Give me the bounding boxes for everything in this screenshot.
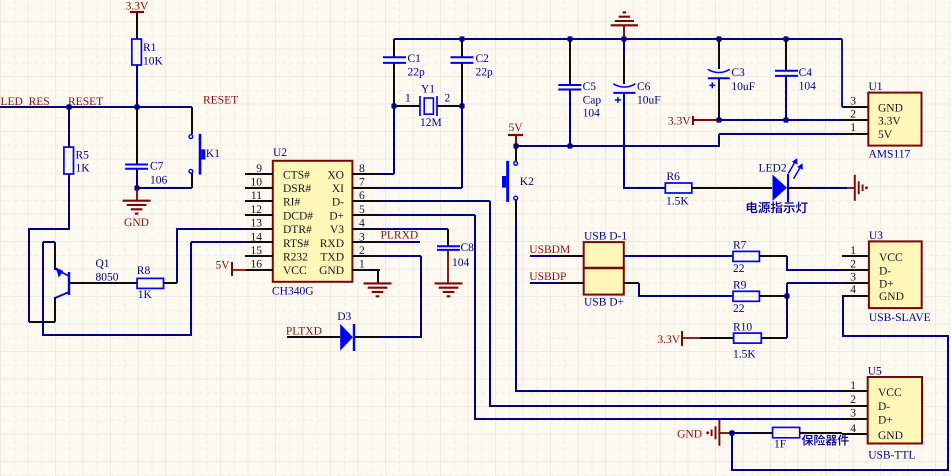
junction C2 top: [459, 36, 464, 41]
wire PLRXD stub: [380, 241, 420, 243]
wire K2 bottom to U5 pin1: [515, 200, 517, 220]
svg-text:C2: C2: [476, 53, 490, 65]
resistor R7: [733, 251, 759, 261]
wire top GND bus: [394, 38, 842, 40]
wire U1 pin1 5V rail: [719, 133, 842, 135]
junction R5 node: [66, 104, 71, 109]
wire U3 GND route: [732, 296, 948, 470]
wire C6 bottom to R6: [624, 93, 665, 188]
svg-text:106: 106: [150, 175, 168, 187]
capacitor C8: [437, 245, 460, 247]
svg-text:8: 8: [359, 163, 365, 175]
svg-text:3.3V: 3.3V: [126, 1, 149, 13]
svg-text:Y1: Y1: [421, 84, 435, 96]
wire K1 bottom row: [137, 187, 192, 189]
wire C3 bottom stem: [718, 78, 720, 120]
ground (below U2): [364, 282, 392, 284]
svg-text:10K: 10K: [143, 56, 164, 68]
svg-text:3.3V: 3.3V: [878, 116, 901, 128]
svg-text:5: 5: [359, 204, 365, 216]
wire RESET node to C7: [136, 107, 138, 164]
svg-text:D+: D+: [329, 210, 344, 222]
wire R7 to U3 pin2: [759, 255, 787, 257]
svg-text:TXD: TXD: [320, 252, 344, 264]
ground (below C8): [435, 282, 463, 284]
capacitor C5: [558, 84, 581, 86]
svg-text:3: 3: [359, 231, 365, 243]
svg-text:1: 1: [850, 122, 856, 134]
svg-text:22: 22: [733, 303, 745, 315]
svg-text:C7: C7: [150, 161, 164, 173]
junction C7/K1/GND: [134, 185, 139, 190]
wire C6 top stem: [623, 39, 625, 55]
svg-text:D3: D3: [337, 311, 351, 323]
junction 5V/K2: [513, 143, 518, 148]
ground (top, inverted): [623, 25, 625, 39]
wire D+ route (U2 pin5 to U5 pin3): [380, 214, 475, 216]
wire emitter vertical: [54, 297, 56, 322]
svg-text:C5: C5: [583, 81, 597, 93]
svg-text:C1: C1: [408, 53, 422, 65]
wire LED_RES row: [0, 106, 69, 108]
junction C3 top: [716, 36, 721, 41]
wire XI to crystal: [380, 187, 462, 189]
wire R8 to U2 pin13: [164, 282, 177, 284]
wire LED cathode to ground: [788, 187, 814, 189]
svg-text:CTS#: CTS#: [283, 169, 310, 181]
svg-text:12: 12: [251, 204, 263, 216]
wire TXD to D3: [380, 255, 421, 257]
fuse 1F: [773, 427, 800, 437]
wire C1 stems: [393, 39, 395, 57]
svg-text:USBDP: USBDP: [529, 271, 566, 283]
svg-text:22p: 22p: [408, 67, 426, 79]
resistor R1: [132, 39, 142, 65]
U1 pin stubs: [842, 106, 868, 108]
diode D3: [340, 324, 353, 351]
wire XO to crystal: [380, 173, 394, 175]
svg-text:1.5K: 1.5K: [733, 349, 756, 361]
svg-text:VCC: VCC: [879, 252, 903, 264]
svg-text:5V: 5V: [215, 259, 230, 271]
svg-text:PLTXD: PLTXD: [286, 326, 322, 338]
capacitor C3 (polarized): [708, 69, 730, 72]
wire collector vertical: [54, 242, 56, 270]
svg-text:D-: D-: [332, 197, 344, 209]
capacitor C4: [775, 70, 798, 72]
svg-text:D+: D+: [879, 279, 894, 291]
svg-text:V3: V3: [330, 224, 344, 236]
junction GND stem: [621, 36, 626, 41]
wire R10 to node: [761, 337, 787, 339]
wire C4 top stem: [785, 39, 787, 71]
wire collector to RTS loop: [43, 241, 55, 243]
wire USBDP: [530, 282, 557, 284]
svg-text:U5: U5: [868, 366, 882, 378]
resistor R6: [665, 183, 692, 193]
switch K2: [514, 162, 518, 166]
junction C5 top: [567, 36, 572, 41]
resistor R5: [64, 147, 74, 174]
U3 pin stubs: [842, 255, 869, 257]
wire K1 bottom: [191, 173, 193, 188]
svg-text:C6: C6: [637, 81, 651, 93]
junction C4 bottom: [783, 117, 788, 122]
ground port (fuse): [718, 420, 720, 446]
junction R1/C7 node: [134, 104, 139, 109]
LED LED2: [773, 175, 788, 201]
svg-text:VCC: VCC: [283, 265, 307, 277]
svg-text:104: 104: [452, 257, 470, 269]
svg-text:RXD: RXD: [320, 238, 344, 250]
svg-text:13: 13: [251, 218, 263, 230]
svg-text:2: 2: [850, 259, 856, 271]
svg-text:4: 4: [850, 284, 856, 296]
svg-text:R10: R10: [733, 322, 752, 334]
svg-text:D+: D+: [878, 414, 893, 426]
wire D+ to R9: [624, 282, 639, 284]
svg-text:CH340G: CH340G: [272, 286, 314, 298]
svg-text:3.3V: 3.3V: [668, 116, 691, 128]
wire C2 stems: [461, 39, 463, 57]
svg-text:R232: R232: [283, 252, 308, 264]
svg-text:GND: GND: [878, 430, 903, 442]
svg-text:7: 7: [359, 177, 365, 189]
capacitor C7: [125, 164, 148, 166]
svg-text:C4: C4: [799, 67, 813, 79]
svg-text:GND: GND: [124, 217, 149, 229]
svg-text:14: 14: [251, 231, 263, 243]
svg-text:D-: D-: [879, 266, 891, 278]
junction crystal left: [391, 103, 396, 108]
svg-text:RESET: RESET: [203, 95, 238, 107]
svg-text:1: 1: [850, 245, 856, 257]
svg-text:DCD#: DCD#: [283, 210, 313, 222]
svg-text:R1: R1: [143, 42, 157, 54]
wire C5 bottom stem: [569, 90, 571, 146]
svg-text:PLRXD: PLRXD: [381, 230, 419, 242]
wire R5 to emitter (left loop): [29, 174, 69, 322]
svg-text:3: 3: [850, 96, 856, 108]
svg-text:GND: GND: [878, 103, 903, 115]
svg-text:U1: U1: [869, 81, 883, 93]
svg-text:GND: GND: [879, 291, 904, 303]
wire R1 to RESET node: [136, 65, 138, 107]
svg-text:C3: C3: [731, 67, 745, 79]
resistor R8: [137, 278, 163, 288]
svg-text:4: 4: [850, 423, 856, 435]
svg-text:VCC: VCC: [878, 387, 902, 399]
junction crystal right: [459, 103, 464, 108]
junction fuse/GND: [729, 430, 734, 435]
transistor Q1: [68, 272, 70, 295]
junction R9/R10/D+: [784, 293, 789, 298]
svg-text:104: 104: [799, 81, 817, 93]
wire K2 top: [515, 146, 517, 162]
svg-text:5V: 5V: [878, 129, 893, 141]
U5 pin stubs: [842, 390, 868, 392]
IC U1 box: [868, 93, 921, 146]
svg-text:DSR#: DSR#: [283, 183, 311, 195]
svg-text:Cap: Cap: [583, 95, 602, 107]
svg-text:U3: U3: [869, 230, 883, 242]
svg-text:R6: R6: [667, 171, 681, 183]
svg-text:USBDM: USBDM: [529, 244, 570, 256]
svg-text:XO: XO: [327, 169, 344, 181]
wire 3.3V to U1 pin2: [693, 119, 719, 121]
svg-text:9: 9: [256, 163, 262, 175]
ground (signal, right of LED): [854, 175, 856, 201]
resistor R10: [734, 333, 762, 343]
label 电源指示灯: [747, 202, 808, 214]
svg-text:1K: 1K: [76, 163, 91, 175]
svg-text:3: 3: [850, 272, 856, 284]
svg-text:1: 1: [850, 380, 856, 392]
switch K1: [189, 135, 193, 139]
svg-text:XI: XI: [332, 183, 344, 195]
wire R5 top: [68, 107, 70, 147]
svg-text:K1: K1: [206, 148, 220, 160]
svg-text:K2: K2: [520, 176, 534, 188]
junction C3 bottom: [716, 117, 721, 122]
svg-text:USB D-1: USB D-1: [584, 231, 627, 243]
svg-text:1: 1: [405, 93, 411, 105]
capacitor C1: [383, 56, 406, 58]
wire V3 to C8: [380, 228, 448, 230]
wire GND junction to fuse: [732, 432, 752, 434]
svg-text:6: 6: [359, 190, 365, 202]
svg-text:R9: R9: [733, 280, 747, 292]
svg-text:USB-TTL: USB-TTL: [868, 450, 915, 462]
svg-text:10uF: 10uF: [731, 81, 755, 93]
svg-text:2: 2: [850, 394, 856, 406]
wire U2 pin1 to ground: [377, 270, 379, 283]
svg-text:1F: 1F: [774, 439, 786, 451]
svg-text:4: 4: [359, 218, 365, 230]
svg-text:11: 11: [251, 190, 262, 202]
wire R6 to LED: [692, 187, 772, 189]
svg-text:1K: 1K: [138, 289, 153, 301]
svg-text:RI#: RI#: [283, 197, 301, 209]
svg-text:D-: D-: [878, 401, 890, 413]
svg-text:USB-SLAVE: USB-SLAVE: [869, 312, 931, 324]
svg-text:Q1: Q1: [96, 258, 110, 270]
svg-text:2: 2: [359, 245, 365, 257]
svg-text:GND: GND: [319, 265, 344, 277]
svg-text:RTS#: RTS#: [283, 238, 309, 250]
svg-text:GND: GND: [677, 429, 702, 441]
svg-text:16: 16: [251, 259, 263, 271]
junction C4 top: [783, 36, 788, 41]
U2 left pin stubs: [245, 173, 273, 175]
wire Q1 base: [69, 282, 137, 284]
svg-text:22p: 22p: [476, 67, 494, 79]
svg-text:2: 2: [445, 93, 451, 105]
connector USB D-1 box: [584, 242, 624, 295]
wire R9 to node: [759, 295, 787, 297]
wire C7 to ground node: [136, 169, 138, 188]
svg-text:3: 3: [850, 407, 856, 419]
svg-text:USB D+: USB D+: [584, 297, 624, 309]
crystal Y1: [394, 105, 420, 107]
IC U5 box: [868, 377, 922, 444]
svg-text:8050: 8050: [96, 272, 119, 284]
svg-text:DTR#: DTR#: [283, 224, 312, 236]
wire 3.3V to R10: [682, 337, 700, 339]
svg-text:2: 2: [850, 109, 856, 121]
wire to K1 top: [191, 107, 193, 134]
label 保险器件: [802, 434, 849, 445]
wire node down to R10: [786, 296, 788, 338]
wire USBDM: [530, 255, 557, 257]
svg-text:R8: R8: [137, 265, 151, 277]
svg-text:22: 22: [733, 263, 745, 275]
junction C5 bottom: [567, 143, 572, 148]
ground GND (below C7): [136, 188, 138, 201]
resistor R9: [733, 291, 759, 301]
wire PLTXD: [287, 336, 340, 338]
svg-text:1: 1: [359, 259, 365, 271]
capacitor C6 (polarized): [613, 84, 635, 87]
svg-text:R7: R7: [733, 240, 747, 252]
wire C5 top stem: [569, 39, 571, 85]
IC U3 box: [869, 241, 922, 308]
svg-text:C8: C8: [461, 242, 475, 254]
svg-text:1.5K: 1.5K: [666, 196, 689, 208]
wire C4 bottom stem: [785, 76, 787, 120]
wire fuse to U5 pin4: [800, 432, 842, 434]
wire D- route (U2 pin6 to U5 pin2): [380, 200, 490, 202]
svg-text:LED2: LED2: [759, 163, 787, 175]
svg-text:5V: 5V: [508, 122, 523, 134]
svg-text:10uF: 10uF: [637, 95, 661, 107]
wire U2 pin14 RTS#: [191, 241, 245, 243]
capacitor C2: [451, 56, 474, 58]
svg-text:10: 10: [251, 177, 263, 189]
svg-text:104: 104: [583, 108, 601, 120]
svg-text:R5: R5: [76, 150, 90, 162]
wire D- to R7: [624, 255, 733, 257]
svg-text:12M: 12M: [420, 117, 442, 129]
wire C3 top stem: [718, 39, 720, 69]
svg-text:AMS117: AMS117: [869, 149, 911, 161]
wire C8 to ground: [447, 250, 449, 283]
svg-text:15: 15: [251, 245, 263, 257]
svg-text:3.3V: 3.3V: [657, 334, 680, 346]
wire node up to U3 pin3: [786, 283, 788, 296]
U2 right pin stubs: [352, 173, 380, 175]
svg-text:U2: U2: [273, 147, 287, 159]
IC U2 box: [273, 161, 353, 282]
